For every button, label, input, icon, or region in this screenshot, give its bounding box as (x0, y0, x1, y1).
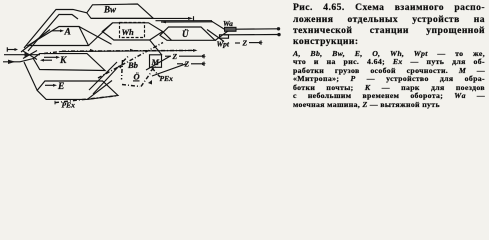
svg-text:PEx: PEx (160, 74, 174, 83)
svg-text:Wh: Wh (122, 27, 135, 37)
svg-text:Z: Z (184, 60, 190, 69)
svg-text:Wa: Wa (223, 19, 233, 28)
svg-text:K: K (59, 56, 67, 66)
svg-text:Z: Z (172, 52, 178, 61)
svg-text:Wpt: Wpt (217, 40, 230, 49)
svg-text:M: M (151, 57, 160, 67)
svg-text:PEx: PEx (62, 100, 76, 109)
svg-text:Bb: Bb (127, 60, 138, 70)
svg-text:E: E (57, 82, 64, 92)
svg-text:Bw: Bw (103, 4, 117, 14)
svg-text:Ö: Ö (134, 72, 140, 82)
svg-text:Ü: Ü (182, 29, 189, 39)
svg-text:A: A (64, 28, 71, 38)
svg-text:Z: Z (242, 38, 248, 47)
